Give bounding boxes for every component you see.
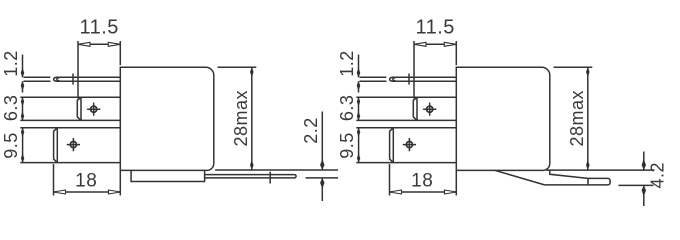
18 dim left extension line [389,164,391,196]
svg-text:18: 18 [75,171,97,192]
svg-text:9.5: 9.5 [337,132,357,159]
11.5 dim extension lines [414,41,456,99]
2.2 dimension line + arrows [321,112,323,202]
mounting bracket foot [545,178,611,185]
coil pin (top, bullet tip) [54,77,121,81]
tab T1 edge lines (6.3) [356,97,456,120]
svg-text:18: 18 [411,171,433,192]
svg-text:1.2: 1.2 [1,50,21,77]
6.3 dimension line + arrows [22,97,24,120]
1.2 dimension line + arrows [22,55,24,93]
4.2 lower extension line [619,184,654,186]
28max dimension line + arrows [251,67,253,170]
pin edge extension lines (1.2 dim) [24,77,51,81]
tab T2 hole crosshair [406,142,412,148]
tab T2 beveled end [390,128,394,163]
svg-text:6.3: 6.3 [1,95,21,122]
28max top extension line [218,66,257,68]
11.5 dimension line [414,43,456,45]
6.3 dimension line + arrows [358,97,360,120]
terminal tab (horizontal quick-connect, left view) [205,175,297,178]
pin edge extension lines (1.2 dim) [360,77,387,81]
tab T1 beveled end [77,97,81,120]
tab T1 beveled end [413,97,417,120]
svg-text:6.3: 6.3 [337,95,357,122]
2.2 lower extension line [306,177,339,179]
tab T1 edge lines (6.3) [20,97,120,120]
bracket bend line [587,178,589,185]
tab T2 edge lines (9.5) [356,128,456,163]
relay body outline (right view) [456,67,550,170]
11.5 dim extension lines [78,41,120,99]
18 dim left extension line [53,164,55,196]
1.2 dimension line + arrows [358,55,360,93]
svg-text:4.2: 4.2 [648,162,668,189]
bottom reference extension line (left view) [215,169,338,171]
tab T2 edge lines (9.5) [20,128,120,163]
body left edge extension down to 18-dim [119,170,121,195]
svg-text:1.2: 1.2 [337,50,357,77]
11.5 dimension line [78,43,120,45]
svg-text:9.5: 9.5 [1,132,21,159]
bottom reference extension line (right view) [546,169,655,171]
tick on coil pin [408,74,410,85]
svg-text:28max: 28max [231,90,251,147]
svg-text:11.5: 11.5 [79,17,118,39]
18 arrows (hollow) [390,190,402,194]
mounting bracket lower diagonal [495,170,545,185]
28max top extension line [554,66,593,68]
11.5 arrows (hollow) [78,42,90,46]
relay body outline (left view) [120,67,214,170]
28max dimension line + arrows [587,67,589,170]
18 dimension line [54,191,121,193]
9.5 dimension line + arrows [22,128,24,163]
18 arrows (hollow) [54,190,66,194]
tab T2 beveled end [54,128,58,163]
svg-text:11.5: 11.5 [415,17,454,39]
4.2 dimension line + arrows [643,152,645,207]
tab T1 hole crosshair [91,106,97,112]
coil pin (top, bullet tip) [390,77,457,81]
mounting flange (left view) [131,170,205,181]
9.5 dimension line + arrows [358,128,360,163]
svg-text:28max: 28max [567,90,587,147]
tab T1 hole crosshair [427,106,433,112]
11.5 arrows (hollow) [414,42,426,46]
mounting bracket upper slope [550,170,588,178]
body left edge extension down to 18-dim [455,170,457,195]
tick on terminal tab [269,172,271,184]
tick on coil pin [72,74,74,85]
svg-text:2.2: 2.2 [301,117,321,144]
18 dimension line [390,191,457,193]
tab T2 hole crosshair [70,142,76,148]
